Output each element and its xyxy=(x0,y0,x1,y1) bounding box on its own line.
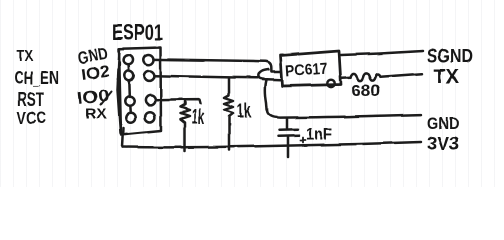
svg-text:TX: TX xyxy=(434,66,460,88)
pin hole row3 left xyxy=(125,96,134,105)
wire R3 to TX xyxy=(381,74,423,77)
svg-text:CH_EN: CH_EN xyxy=(14,68,59,88)
svg-text:GND: GND xyxy=(427,114,459,133)
pin hole row1 right xyxy=(143,55,153,65)
resistor R1 1k xyxy=(181,100,190,151)
pin hole row1 left xyxy=(124,55,133,64)
connector J1 (ESP01 2x4 header) outline xyxy=(118,48,162,135)
pin hole row2 right xyxy=(144,71,154,81)
svg-text:VCC: VCC xyxy=(17,109,46,128)
pin-1 mark on U1 xyxy=(327,80,334,87)
polarity mark + xyxy=(301,138,306,143)
resistor R2 1k xyxy=(225,78,234,150)
pin hole row4 left xyxy=(126,113,135,122)
wire 3V3 rail xyxy=(123,142,422,147)
wire U1 to SGND xyxy=(341,51,423,55)
wire junction down to GND rail xyxy=(265,80,267,112)
wire U1 to R3 xyxy=(342,76,351,79)
capacitor C1 bottom lead xyxy=(287,136,290,157)
svg-text:3V3: 3V3 xyxy=(427,134,459,154)
wire connector to 3V3 rail xyxy=(123,128,124,147)
svg-text:RX: RX xyxy=(85,106,107,123)
svg-text:IO2: IO2 xyxy=(80,64,110,84)
opto-isolator U1 PC617 box xyxy=(281,51,342,86)
pin hole row4 right xyxy=(145,112,155,122)
svg-text:TX: TX xyxy=(17,48,33,65)
svg-text:1k: 1k xyxy=(192,106,205,129)
pin hole row3 right xyxy=(145,95,155,105)
svg-text:680: 680 xyxy=(351,81,380,100)
wire row3 (IO0 pin to R1) xyxy=(156,100,201,104)
svg-text:1k: 1k xyxy=(237,99,251,122)
svg-text:SGND: SGND xyxy=(427,47,473,68)
capacitor C1 plates xyxy=(279,129,300,136)
junction hook at opto input xyxy=(258,70,269,80)
wire GND line xyxy=(267,112,421,118)
capacitor C1 top lead xyxy=(286,118,289,128)
resistor R3 680 xyxy=(351,73,381,80)
slash through IO0 zero xyxy=(101,92,112,105)
svg-text:PC617: PC617 xyxy=(285,61,328,81)
svg-text:1nF: 1nF xyxy=(306,125,333,144)
wire row1 (GND pin to opto input) xyxy=(154,59,282,71)
svg-text:ESP01: ESP01 xyxy=(112,20,163,45)
joining strokes left pin column xyxy=(129,65,131,113)
wire row2 (IO2 pin to opto input) xyxy=(155,76,282,80)
pin hole row2 left xyxy=(124,71,133,80)
